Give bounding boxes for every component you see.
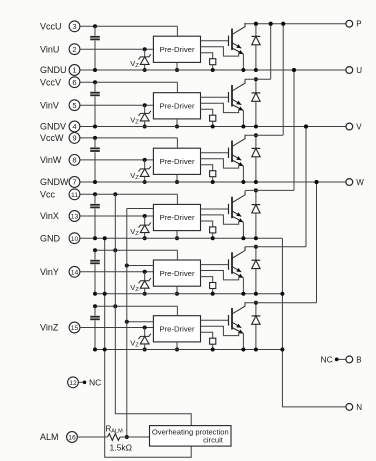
node FWD DZ bottom xyxy=(254,348,258,352)
svg-text:12: 12 xyxy=(69,380,77,387)
wire VinX xyxy=(80,215,153,217)
zener diode VzU xyxy=(139,47,151,72)
detect resistor Z (square) xyxy=(210,338,216,351)
wire emitter rail / GNDY xyxy=(93,292,282,296)
svg-text:Pre-Driver: Pre-Driver xyxy=(159,213,194,222)
wire emitter rail / GNDZ xyxy=(93,348,282,352)
detect resistor X (square) xyxy=(210,227,216,240)
pre-driver U xyxy=(153,36,200,62)
svg-text:VZ: VZ xyxy=(130,339,139,349)
svg-text:7: 7 xyxy=(72,178,76,187)
wire N bus xyxy=(282,238,346,407)
svg-text:P: P xyxy=(356,20,361,29)
freewheel diode DW xyxy=(252,135,261,182)
wire VccY xyxy=(93,248,177,252)
wire collector Y level line xyxy=(245,246,306,248)
IGBT QV xyxy=(201,79,246,126)
capacitor CV xyxy=(90,82,100,126)
wire bus to collector W xyxy=(282,24,284,136)
IGBT QY xyxy=(201,247,246,294)
wire bus to collector Y xyxy=(305,127,307,247)
svg-text:U: U xyxy=(356,66,362,75)
pin 12 circle xyxy=(68,377,79,388)
svg-text:9: 9 xyxy=(72,134,76,143)
svg-text:VinZ: VinZ xyxy=(40,323,59,333)
pin 6 circle xyxy=(69,77,80,88)
pin 14 circle xyxy=(69,266,80,277)
svg-text:VccU: VccU xyxy=(40,22,62,32)
svg-text:N: N xyxy=(356,403,362,412)
zener diode VzY xyxy=(139,270,151,296)
zener diode VzV xyxy=(139,103,151,128)
IGBT QU xyxy=(201,23,246,70)
wire VinY xyxy=(80,271,153,273)
svg-text:RALM: RALM xyxy=(106,425,124,435)
wire collector V level line xyxy=(245,78,271,80)
pin 3 circle xyxy=(69,21,80,32)
svg-text:B: B xyxy=(356,355,361,364)
svg-text:VZ: VZ xyxy=(130,283,139,293)
capacitor CX xyxy=(90,194,100,238)
zener diode VzZ xyxy=(139,326,151,352)
wire ALM bus xyxy=(125,209,129,440)
svg-text:15: 15 xyxy=(71,325,79,332)
zener diode VzX xyxy=(139,214,151,240)
terminal U xyxy=(346,66,362,75)
pre-driver V xyxy=(153,93,200,119)
node emitter W on rail xyxy=(241,180,245,184)
wire VccW xyxy=(80,136,177,140)
wire VccX xyxy=(80,192,177,196)
node FWD DU bottom xyxy=(254,68,258,72)
node bus W junction xyxy=(281,22,285,26)
wire VccU xyxy=(80,24,177,28)
svg-text:GNDV: GNDV xyxy=(40,122,66,132)
pre-driver W xyxy=(153,148,200,174)
pin 16 circle xyxy=(67,432,78,443)
wire X pre-driver GND stub xyxy=(175,231,179,241)
pin 2 circle xyxy=(69,44,80,55)
wire X sense-emitter xyxy=(201,215,239,224)
terminal B (NC) xyxy=(321,354,346,364)
capacitor CZ xyxy=(90,306,100,349)
detect resistor W (square) xyxy=(210,171,216,184)
svg-text:4: 4 xyxy=(72,122,76,131)
node bus Z junction xyxy=(315,180,319,184)
terminal P xyxy=(346,20,362,29)
pre-driver X xyxy=(153,204,200,230)
IGBT QW xyxy=(201,135,246,182)
svg-text:5: 5 xyxy=(72,101,76,110)
wire Z pre-driver Vcc stub xyxy=(176,306,178,316)
svg-text:VZ: VZ xyxy=(130,116,139,126)
resistor RALM xyxy=(108,434,121,441)
pin 11 circle xyxy=(69,189,80,200)
terminal N xyxy=(346,403,362,412)
wire W sense-emitter xyxy=(201,159,239,168)
wire Y pre-driver GND stub xyxy=(175,286,179,296)
svg-text:Pre-Driver: Pre-Driver xyxy=(159,45,194,54)
node emitter V on rail xyxy=(241,125,245,129)
svg-text:6: 6 xyxy=(72,78,76,87)
svg-text:3: 3 xyxy=(72,22,76,31)
wire U pre-driver Vcc stub xyxy=(176,26,178,36)
freewheel diode DX xyxy=(252,190,261,238)
node U rail to X bus xyxy=(292,68,296,72)
detect resistor Y (square) xyxy=(210,283,216,296)
wire RALM to overheat box xyxy=(120,436,149,438)
node emitter X on rail xyxy=(241,236,245,240)
svg-text:VccW: VccW xyxy=(40,133,64,143)
freewheel diode DY xyxy=(252,247,261,294)
svg-text:VZ: VZ xyxy=(130,59,139,69)
wire X to detect resistor xyxy=(201,221,213,227)
svg-text:VinV: VinV xyxy=(40,100,59,110)
freewheel diode DZ xyxy=(252,303,261,350)
wire V pre-driver Vcc stub xyxy=(176,82,178,93)
wire ALM stub Y xyxy=(125,264,154,268)
zener diode VzW xyxy=(139,158,151,184)
detect resistor V (square) xyxy=(210,115,216,128)
node V rail to Y bus xyxy=(304,125,308,129)
node FWD DX bottom xyxy=(254,236,258,240)
svg-text:V: V xyxy=(356,122,362,131)
wire V sense-emitter xyxy=(201,103,239,112)
node bus V junction xyxy=(269,22,273,26)
node bus Y junction xyxy=(304,125,308,129)
wire U pre-driver GND stub xyxy=(175,62,179,72)
svg-text:1: 1 xyxy=(72,66,76,75)
pre-driver Z xyxy=(153,316,200,342)
wire Z pre-driver GND stub xyxy=(175,342,179,352)
wire ALM pin to resistor xyxy=(77,436,107,438)
svg-text:GNDU: GNDU xyxy=(40,65,67,75)
node FWD DW top xyxy=(254,133,258,137)
wire bus to collector V xyxy=(270,24,272,79)
node FWD DV top xyxy=(254,77,258,81)
terminal V xyxy=(346,122,362,131)
wire Vcc bus xyxy=(115,194,191,425)
wire U sense-emitter xyxy=(201,47,239,56)
pin 1 circle xyxy=(69,65,80,76)
wire X pre-driver Vcc stub xyxy=(176,194,178,204)
svg-text:16: 16 xyxy=(68,435,76,442)
node N bus at Y rail xyxy=(280,292,284,296)
freewheel diode DV xyxy=(252,79,261,126)
wire W pre-driver Vcc stub xyxy=(176,138,178,148)
capacitor CY xyxy=(90,250,100,294)
wire ALM stub Z xyxy=(125,320,154,324)
svg-text:VinX: VinX xyxy=(40,211,59,221)
wire V pre-driver GND stub xyxy=(175,119,179,129)
svg-text:ALM: ALM xyxy=(40,432,59,442)
svg-text:11: 11 xyxy=(71,192,78,199)
wire Z to detect resistor xyxy=(201,332,213,338)
svg-text:VccV: VccV xyxy=(40,77,61,87)
pin 10 circle xyxy=(69,233,80,244)
wire W to detect resistor xyxy=(201,165,213,171)
svg-text:VinY: VinY xyxy=(40,267,59,277)
svg-text:VinW: VinW xyxy=(40,155,62,165)
node FWD DZ top xyxy=(254,301,258,305)
wire collector X level line xyxy=(245,189,294,191)
pin 7 circle xyxy=(69,177,80,188)
capacitor CU xyxy=(90,26,100,70)
wire W pre-driver GND stub xyxy=(175,174,179,184)
IGBT QZ xyxy=(201,302,246,349)
overheating protection circuit box xyxy=(150,426,232,447)
node N bus at Z rail xyxy=(280,348,284,352)
wire VccV xyxy=(80,80,177,84)
wire P rail xyxy=(245,22,346,26)
svg-text:10: 10 xyxy=(71,236,79,243)
svg-text:1.5kΩ: 1.5kΩ xyxy=(110,443,132,453)
wire VinV xyxy=(80,104,153,106)
capacitor CW xyxy=(90,138,100,182)
svg-text:2: 2 xyxy=(72,45,76,54)
wire emitter rail / GNDW xyxy=(80,180,346,184)
pin 4 circle xyxy=(69,121,80,132)
wire VccZ xyxy=(93,304,177,308)
node FWD DV bottom xyxy=(254,125,258,129)
svg-text:Pre-Driver: Pre-Driver xyxy=(159,325,194,334)
detect resistor U (square) xyxy=(210,59,216,72)
svg-text:NC: NC xyxy=(89,377,101,387)
node bus X junction xyxy=(292,68,296,72)
wire GND bus xyxy=(103,236,192,457)
node FWD DU top xyxy=(254,22,258,26)
NC stub at pin 12 xyxy=(78,377,101,387)
svg-text:GND: GND xyxy=(40,233,61,243)
pin 13 circle xyxy=(69,211,80,222)
wire VinZ xyxy=(80,327,153,329)
wire U to detect resistor xyxy=(201,53,213,59)
wire Z sense-emitter xyxy=(201,326,239,335)
wire Y pre-driver Vcc stub xyxy=(176,250,178,260)
wire Y to detect resistor xyxy=(201,277,213,283)
svg-text:Vcc: Vcc xyxy=(40,190,56,200)
wire ALM stub X xyxy=(127,208,154,210)
node emitter Z on rail xyxy=(241,348,245,352)
node FWD DW bottom xyxy=(254,180,258,184)
svg-text:14: 14 xyxy=(71,269,79,276)
svg-text:Pre-Driver: Pre-Driver xyxy=(159,269,194,278)
wire bus to collector X xyxy=(293,70,295,190)
freewheel diode DU xyxy=(252,24,261,70)
svg-text:Pre-Driver: Pre-Driver xyxy=(159,157,194,166)
wire bus to collector Z xyxy=(316,182,318,303)
wire VinU xyxy=(80,48,153,50)
svg-text:circuit: circuit xyxy=(203,436,224,445)
svg-text:VZ: VZ xyxy=(130,227,139,237)
node FWD DY top xyxy=(254,245,258,249)
wire emitter rail / GNDX xyxy=(80,236,282,240)
wire emitter rail / GNDU xyxy=(80,68,346,72)
svg-text:GNDW: GNDW xyxy=(40,177,69,187)
wire collector Z level line xyxy=(245,302,317,304)
node emitter Y on rail xyxy=(241,292,245,296)
IGBT QX xyxy=(201,191,246,238)
wire V to detect resistor xyxy=(201,109,213,115)
node emitter U on rail xyxy=(241,68,245,72)
wire Y sense-emitter xyxy=(201,271,239,280)
svg-text:W: W xyxy=(356,178,364,187)
pin 15 circle xyxy=(69,322,80,333)
node FWD DY bottom xyxy=(254,292,258,296)
pre-driver Y xyxy=(153,260,200,286)
wire emitter rail / GNDV xyxy=(80,125,346,129)
svg-text:VZ: VZ xyxy=(130,171,139,181)
pin 8 circle xyxy=(69,155,80,166)
svg-text:Pre-Driver: Pre-Driver xyxy=(159,102,194,111)
pin 9 circle xyxy=(69,133,80,144)
svg-text:VinU: VinU xyxy=(40,44,59,54)
svg-text:8: 8 xyxy=(72,156,76,165)
node FWD DX top xyxy=(254,188,258,192)
wire collector W level line xyxy=(245,134,283,136)
pin 5 circle xyxy=(69,100,80,111)
wire VinW xyxy=(80,159,153,161)
svg-text:NC: NC xyxy=(321,354,333,364)
node W rail to Z bus xyxy=(315,180,319,184)
terminal W xyxy=(346,178,364,187)
svg-text:13: 13 xyxy=(71,214,79,221)
